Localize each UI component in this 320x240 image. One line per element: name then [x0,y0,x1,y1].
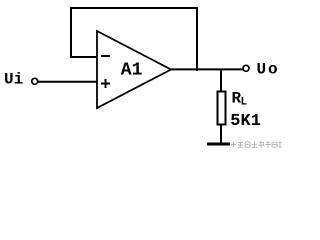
ground [207,143,230,146]
wire: RL top lead [220,70,222,91]
watermark text (decorative gray) [231,142,282,148]
label RL [232,90,248,109]
terminal: input port Ui [32,78,38,84]
svg-text:5K1: 5K1 [230,112,261,131]
node: RL tap junction [220,69,222,71]
wire: inverting input horizontal [70,56,97,58]
op-amp non-inverting input marker (plus) [101,79,110,88]
svg-text:o: o [268,61,278,79]
label Ui [4,70,23,88]
terminal: output port Uo [243,65,249,71]
svg-text:L: L [241,97,248,109]
wire: output from op-amp to Uo terminal [171,68,243,70]
resistor RL body [218,92,226,125]
wire: feedback left vertical down to inverting input [70,7,72,57]
wire: feedback top segment [71,7,197,9]
wire: non-inverting input from Ui terminal [38,81,98,83]
label 5K1 value [230,112,261,131]
svg-text:U: U [257,61,267,79]
op-amp U1 A1 triangle body [97,31,171,108]
wire: RL bottom lead [220,125,222,144]
svg-text:A1: A1 [121,61,143,81]
op-amp inverting input marker (minus) [101,55,110,57]
label Uo [257,61,278,79]
wire: feedback right vertical from output node [196,7,198,70]
svg-text:Ui: Ui [4,70,23,88]
label A1 [121,61,143,81]
node: feedback/output junction [196,69,198,71]
